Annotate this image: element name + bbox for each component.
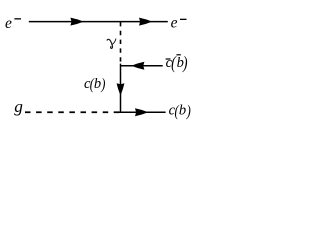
arrow left on antiquark line [131,62,144,70]
svg-text:g: g [14,97,23,116]
svg-text:b: b [94,76,101,92]
svg-text:b: b [179,102,186,118]
label e- (left): superscript minus [14,18,21,19]
wire antiquark line (horizontal, middle) [121,65,163,67]
wire electron line (horizontal) [29,21,168,23]
wire quark vertical line [120,64,122,113]
svg-text:e: e [171,15,178,32]
photon gamma: vertical dashed propagator [120,22,122,66]
svg-text:e: e [5,15,12,32]
arrow down on quark vertical line [117,83,125,95]
arrow right on outgoing electron segment [139,18,152,26]
gluon: horizontal dashed propagator [25,111,120,113]
svg-text:): ) [182,54,188,73]
arrow right on incoming electron segment [70,18,83,26]
label cbar(bbar): bar over c [166,58,171,59]
label cbar(bbar): bar over b [176,54,180,55]
label gamma [107,39,116,49]
svg-text:): ) [186,103,191,121]
label e- (right): superscript minus [180,19,187,20]
svg-text:): ) [100,76,105,94]
wire quark bottom line (horizontal) [114,111,166,113]
arrow right on bottom quark line [135,108,148,116]
